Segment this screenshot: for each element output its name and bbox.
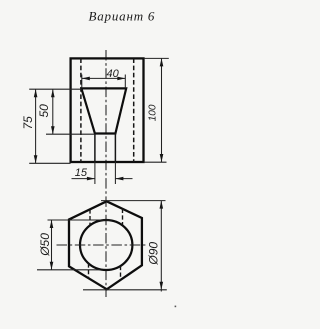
hole wall right below cone [114,134,116,163]
svg-text:Ø90: Ø90 [147,242,161,266]
centerline vertical axis [105,50,107,297]
svg-text:Вариант 6: Вариант 6 [89,9,156,24]
dim 15 line with outside arrows [72,178,133,180]
svg-text:Ø50: Ø50 [38,233,52,257]
dim o50 line with arrows [51,220,53,270]
extension line base to left [29,162,70,164]
horizontal centerline bottom view [57,244,147,246]
svg-text:15: 15 [75,167,88,179]
dim o90 line with arrows [160,201,162,292]
dim 40 extension left [81,75,83,89]
hidden dash upper-left [89,209,91,225]
dim o90 extension top [101,200,166,202]
dim o50 extension top [48,219,113,221]
hidden dash upper-right [122,209,124,226]
dim 100 extension bottom [144,161,167,163]
dim o90 extension bottom [83,289,167,291]
hole wall left below cone [94,134,96,163]
front view outline rectangle [71,58,144,162]
svg-text:50: 50 [37,104,51,118]
stray speck [175,306,177,308]
hidden dash lower-left [88,263,90,278]
dim 40 line with arrows [82,77,126,79]
svg-text:40: 40 [107,68,120,80]
hidden line right (cylinder o50) [133,58,135,162]
dim 100 extension top [144,57,169,59]
extension line cone-bottom to left [46,133,95,135]
svg-text:75: 75 [21,116,35,130]
dim 15 extension right [114,162,116,184]
hidden dash lower-right [120,266,122,280]
dim 15 extension left [94,162,96,184]
extension line cone-top to left [29,88,82,90]
bottom view circle o50 [80,220,132,270]
bottom view hexagon [69,201,142,289]
dim 40 extension right [124,75,126,89]
conical hole trapezoid [81,88,126,133]
dim 100 line with arrows [161,58,163,162]
svg-text:100: 100 [147,104,158,121]
hidden line left (cylinder o50) [80,58,82,162]
dim 50 line with arrows [52,89,54,134]
dim 75 line with arrows [35,89,37,163]
dim o50 extension bottom [37,269,100,271]
